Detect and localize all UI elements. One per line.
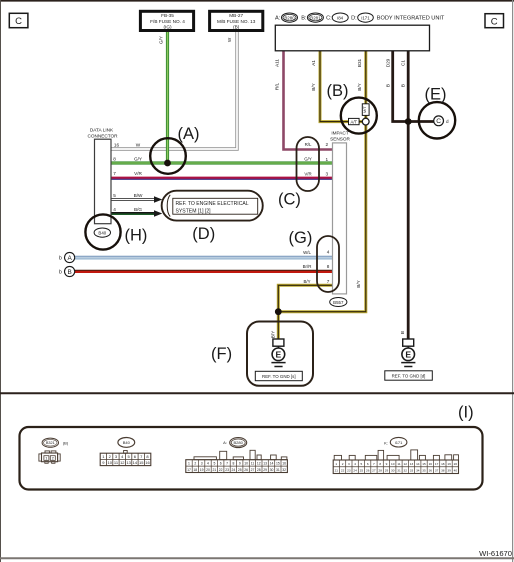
svg-text:IMPACT: IMPACT	[331, 131, 348, 136]
svg-text:21: 21	[213, 468, 217, 472]
svg-text:15: 15	[422, 462, 426, 466]
wire B from BIU pin C1 down to ground	[407, 51, 410, 340]
svg-text:C: C	[15, 16, 22, 27]
svg-text:CONNECTOR: CONNECTOR	[87, 133, 118, 138]
svg-text:21: 21	[335, 469, 339, 473]
svg-text:3: 3	[201, 462, 203, 466]
svg-text:i84: i84	[337, 15, 343, 20]
svg-text:17: 17	[435, 462, 439, 466]
svg-text:M/T: M/T	[362, 106, 367, 113]
wire G/Y horizontal from DLC pin 8 to impact sensor pin 1	[111, 161, 333, 164]
svg-text:15: 15	[139, 460, 144, 465]
svg-text:A1: A1	[311, 60, 316, 66]
fuse box MB-27	[210, 11, 263, 30]
connector oval B:B281	[301, 13, 323, 22]
right ground circle E	[402, 348, 415, 361]
svg-text:Br/R: Br/R	[303, 264, 312, 269]
svg-text:B/Y: B/Y	[311, 82, 316, 90]
svg-text:E: E	[276, 350, 282, 360]
svg-text:8: 8	[232, 462, 234, 466]
svg-text:9: 9	[239, 462, 241, 466]
wire B/Y from BIU pin B31 down right side of impact sensor	[278, 51, 366, 312]
circle E (ground point d)	[419, 102, 455, 138]
svg-text:2: 2	[342, 462, 344, 466]
svg-text:28: 28	[378, 469, 382, 473]
svg-text:DATA LINK: DATA LINK	[90, 128, 114, 133]
svg-text:20: 20	[454, 462, 458, 466]
svg-text:20: 20	[206, 468, 210, 472]
svg-text:29: 29	[385, 469, 389, 473]
svg-text:27: 27	[372, 469, 376, 473]
connector face view B321	[39, 438, 60, 463]
svg-text:A/T: A/T	[351, 119, 358, 124]
svg-text:F/B FUSE NO. 4: F/B FUSE NO. 4	[150, 19, 185, 24]
svg-text:E: E	[405, 350, 411, 360]
svg-text:7: 7	[327, 279, 330, 284]
svg-text:33: 33	[410, 469, 414, 473]
svg-text:SYSTEM [1] [2]: SYSTEM [1] [2]	[176, 208, 212, 214]
wire G/Y vertical from FB-35 fuse	[166, 32, 169, 164]
svg-text:B/W: B/W	[134, 193, 143, 198]
wire stub A/T box to junction circle	[359, 120, 364, 123]
svg-text:W/L: W/L	[303, 250, 311, 255]
svg-text:11: 11	[251, 462, 255, 466]
connector oval D:i171	[351, 13, 373, 22]
svg-text:10: 10	[107, 460, 112, 465]
svg-text:(IG): (IG)	[163, 25, 172, 30]
svg-text:7: 7	[226, 462, 228, 466]
wire B/W from DLC pin 5 to ref box (arrow)	[111, 198, 155, 201]
right ground wire stub	[407, 346, 409, 348]
svg-text:C1: C1	[400, 60, 405, 66]
svg-text:38: 38	[441, 469, 445, 473]
arrowhead B/W	[154, 196, 162, 203]
svg-text:G/Y: G/Y	[304, 157, 312, 162]
svg-text:26: 26	[366, 469, 370, 473]
right ground connector square	[403, 339, 414, 346]
svg-text:8: 8	[379, 462, 381, 466]
ground F connector square	[273, 339, 284, 346]
impact sensor box	[330, 131, 350, 294]
svg-text:14: 14	[133, 460, 138, 465]
svg-text:(G): (G)	[289, 229, 313, 247]
ref box D (rounded, to engine electrical system)	[162, 191, 263, 221]
wire B/Y from impact sensor pin 7 to junction	[278, 285, 332, 311]
svg-text:5: 5	[213, 462, 215, 466]
svg-text:34: 34	[416, 469, 420, 473]
svg-text:R/L: R/L	[305, 142, 312, 147]
circle B (A/T - M/T selection)	[341, 98, 377, 134]
wire B from junction to ground point E	[408, 120, 434, 123]
wire W from MB-27 fuse to data link connector pin 16	[111, 32, 237, 150]
svg-text:30: 30	[391, 469, 395, 473]
svg-text:K:: K:	[384, 440, 388, 445]
svg-text:REF. TO ENGINE ELECTRICAL: REF. TO ENGINE ELECTRICAL	[176, 201, 249, 207]
svg-text:11: 11	[397, 462, 400, 466]
svg-text:B: B	[400, 331, 405, 334]
svg-text:16: 16	[145, 460, 150, 465]
svg-text:B/Y: B/Y	[303, 279, 310, 284]
wire B from BIU pin D29 to junction	[393, 51, 409, 122]
svg-text:(B): (B)	[63, 441, 69, 446]
svg-text:27: 27	[251, 468, 255, 472]
svg-text:3: 3	[348, 462, 350, 466]
svg-text:(C): (C)	[278, 191, 301, 209]
svg-text:i171: i171	[395, 440, 403, 445]
page frame top border	[0, 0, 514, 2]
junction dot B/Y net	[275, 308, 282, 315]
svg-text:B: B	[385, 84, 390, 87]
svg-text:19: 19	[200, 468, 204, 472]
svg-text:8: 8	[327, 264, 330, 269]
body integrated unit box U1	[275, 25, 429, 51]
connector oval B40	[94, 228, 110, 237]
svg-text:36: 36	[429, 469, 433, 473]
svg-text:2: 2	[194, 462, 196, 466]
svg-text:BODY INTEGRATED UNIT: BODY INTEGRATED UNIT	[377, 16, 445, 22]
svg-text:12: 12	[257, 462, 261, 466]
svg-text:i171: i171	[361, 15, 370, 20]
svg-text:16: 16	[114, 142, 120, 147]
svg-text:23: 23	[347, 469, 351, 473]
wire Br/R from node b-B to impact sensor pin 8	[75, 270, 333, 271]
connector oval A:B280	[275, 13, 298, 22]
svg-text:G/Y: G/Y	[134, 156, 143, 161]
svg-text:B557: B557	[333, 300, 344, 305]
svg-text:4: 4	[327, 250, 330, 255]
connector face view i171	[333, 437, 458, 473]
page frame right border	[512, 0, 514, 562]
svg-text:18: 18	[441, 462, 445, 466]
svg-text:14: 14	[416, 462, 420, 466]
A/T box	[349, 118, 360, 124]
svg-text:10: 10	[391, 462, 395, 466]
svg-text:1: 1	[335, 462, 337, 466]
svg-text:10: 10	[244, 462, 248, 466]
svg-text:8: 8	[113, 156, 116, 161]
svg-text:13: 13	[263, 462, 267, 466]
svg-text:18: 18	[193, 468, 197, 472]
svg-text:M/B FUSE NO. 13: M/B FUSE NO. 13	[217, 19, 256, 24]
connector face view B280	[186, 438, 288, 473]
svg-text:A: A	[67, 255, 72, 262]
connector face view B40	[100, 438, 151, 466]
svg-text:A11: A11	[275, 59, 280, 67]
svg-text:V/R: V/R	[304, 171, 311, 176]
svg-text:31: 31	[276, 468, 280, 472]
svg-text:REF. TO GND [s]: REF. TO GND [s]	[262, 374, 296, 379]
stadium oval C around wire labels	[297, 137, 320, 191]
svg-text:13: 13	[410, 462, 414, 466]
svg-text:B280: B280	[234, 440, 244, 445]
ground F circle E	[272, 348, 285, 361]
svg-text:22: 22	[341, 469, 345, 473]
svg-text:C: C	[491, 16, 498, 27]
ground F wire stub	[277, 346, 279, 348]
svg-text:(I): (I)	[458, 404, 474, 422]
svg-text:(B): (B)	[327, 82, 349, 100]
svg-text:31: 31	[397, 469, 401, 473]
svg-text:7: 7	[113, 171, 116, 176]
svg-text:4: 4	[207, 462, 209, 466]
right ground hatch lines	[401, 362, 415, 364]
page frame bottom border	[0, 557, 514, 559]
node b A	[59, 252, 75, 262]
svg-text:W: W	[227, 37, 232, 42]
wire B/Y from BIU pin A1 to A/T box	[320, 51, 349, 122]
svg-text:MB-27: MB-27	[229, 13, 243, 18]
svg-text:22: 22	[219, 468, 223, 472]
svg-text:D:: D:	[351, 16, 357, 22]
svg-text:23: 23	[225, 468, 229, 472]
ground F box	[247, 322, 313, 386]
svg-text:3: 3	[325, 172, 328, 177]
svg-text:30: 30	[270, 468, 274, 472]
svg-text:16: 16	[282, 462, 286, 466]
circle H around DLC connector	[85, 214, 120, 249]
svg-text:1: 1	[325, 157, 328, 162]
svg-text:V/R: V/R	[134, 171, 142, 176]
svg-text:(D): (D)	[192, 225, 215, 243]
junction dot on G/Y wire (node A)	[164, 160, 171, 167]
svg-text:(F): (F)	[211, 345, 232, 363]
svg-text:b: b	[59, 256, 62, 262]
svg-text:28: 28	[257, 468, 261, 472]
ground F ref text box	[255, 371, 302, 380]
svg-text:19: 19	[447, 462, 451, 466]
section separator line	[0, 392, 514, 394]
svg-text:G/Y: G/Y	[158, 36, 163, 44]
svg-text:25: 25	[238, 468, 242, 472]
svg-text:6: 6	[367, 462, 369, 466]
svg-text:4: 4	[354, 462, 356, 466]
svg-text:b: b	[59, 270, 62, 276]
svg-text:D29: D29	[385, 58, 390, 67]
svg-text:40: 40	[454, 469, 458, 473]
svg-text:B40: B40	[123, 440, 131, 445]
svg-text:B281: B281	[310, 15, 321, 20]
svg-text:4: 4	[113, 207, 116, 212]
connector view box C (top right)	[485, 14, 504, 28]
svg-text:15: 15	[276, 462, 280, 466]
svg-text:17: 17	[187, 468, 191, 472]
wire W/L from node b-A to impact sensor pin 4	[75, 256, 333, 259]
svg-text:B: B	[400, 84, 405, 87]
M/T box	[362, 104, 369, 116]
svg-text:B/G: B/G	[134, 207, 142, 212]
junction dot B net	[405, 118, 412, 125]
svg-text:A:: A:	[223, 440, 227, 445]
svg-text:32: 32	[282, 468, 286, 472]
svg-text:W: W	[136, 142, 141, 147]
connector section box I	[20, 427, 483, 490]
svg-text:B31: B31	[357, 58, 362, 67]
svg-text:(A): (A)	[178, 125, 200, 143]
connector oval B557 (impact sensor)	[330, 298, 347, 307]
svg-text:B/Y: B/Y	[357, 82, 362, 90]
svg-text:B321: B321	[46, 441, 55, 445]
junction circle (open) in circle B	[362, 118, 369, 125]
svg-text:5: 5	[113, 193, 116, 198]
svg-text:16: 16	[429, 462, 433, 466]
svg-text:5: 5	[361, 462, 363, 466]
svg-text:12: 12	[120, 460, 125, 465]
svg-text:14: 14	[270, 462, 274, 466]
arrowhead B/G	[154, 210, 162, 217]
svg-text:1: 1	[188, 462, 190, 466]
svg-text:REF. TO GND [d]: REF. TO GND [d]	[392, 373, 426, 378]
svg-text:29: 29	[263, 468, 267, 472]
right ground ref text box	[385, 371, 433, 380]
svg-text:6: 6	[220, 462, 222, 466]
circle A (harness junction)	[150, 138, 186, 174]
ground point symbol C	[434, 116, 449, 126]
svg-text:7: 7	[373, 462, 375, 466]
svg-text:B/Y: B/Y	[356, 279, 361, 287]
svg-text:B40: B40	[98, 231, 106, 236]
svg-text:B:: B:	[301, 16, 307, 22]
svg-text:12: 12	[403, 462, 407, 466]
svg-text:25: 25	[360, 469, 364, 473]
svg-text:24: 24	[353, 469, 357, 473]
data link connector	[87, 128, 118, 224]
stadium oval G around sensor pins 4 8 7	[317, 236, 339, 292]
wire V/R from DLC pin 7 to impact sensor pin 3	[111, 178, 333, 179]
svg-text:C: C	[436, 118, 441, 125]
svg-text:B280: B280	[284, 15, 295, 20]
svg-text:B: B	[67, 269, 71, 276]
svg-text:24: 24	[232, 468, 236, 472]
svg-text:d: d	[446, 119, 449, 124]
svg-text:SENSOR: SENSOR	[330, 137, 350, 142]
node b B	[59, 266, 75, 276]
svg-text:C:: C:	[326, 16, 332, 22]
svg-text:FB-35: FB-35	[161, 13, 174, 18]
svg-text:(H): (H)	[125, 227, 148, 245]
connector view box C (top left)	[9, 13, 28, 27]
page frame left border	[0, 0, 2, 562]
fuse box FB-35	[140, 11, 193, 30]
wire R/L from BIU pin A11 to impact sensor pin 2	[284, 51, 333, 150]
svg-text:32: 32	[403, 469, 407, 473]
svg-text:37: 37	[435, 469, 439, 473]
svg-text:2: 2	[325, 142, 328, 147]
svg-text:39: 39	[447, 469, 451, 473]
svg-text:(B): (B)	[233, 25, 240, 30]
ground F hatch lines	[271, 362, 285, 364]
svg-text:B/Y: B/Y	[271, 330, 276, 338]
svg-text:A:: A:	[275, 16, 281, 22]
svg-text:35: 35	[422, 469, 426, 473]
svg-text:(E): (E)	[425, 86, 447, 104]
connector oval C:i84	[326, 13, 348, 22]
wire B/G from DLC pin 4 to ref box (arrow)	[111, 213, 155, 214]
svg-text:R/L: R/L	[275, 82, 280, 90]
svg-text:26: 26	[244, 468, 248, 472]
svg-text:WI-61670: WI-61670	[479, 549, 512, 558]
wire B/Y from junction down to ground F	[277, 312, 280, 340]
svg-text:9: 9	[386, 462, 388, 466]
svg-text:13: 13	[126, 460, 131, 465]
